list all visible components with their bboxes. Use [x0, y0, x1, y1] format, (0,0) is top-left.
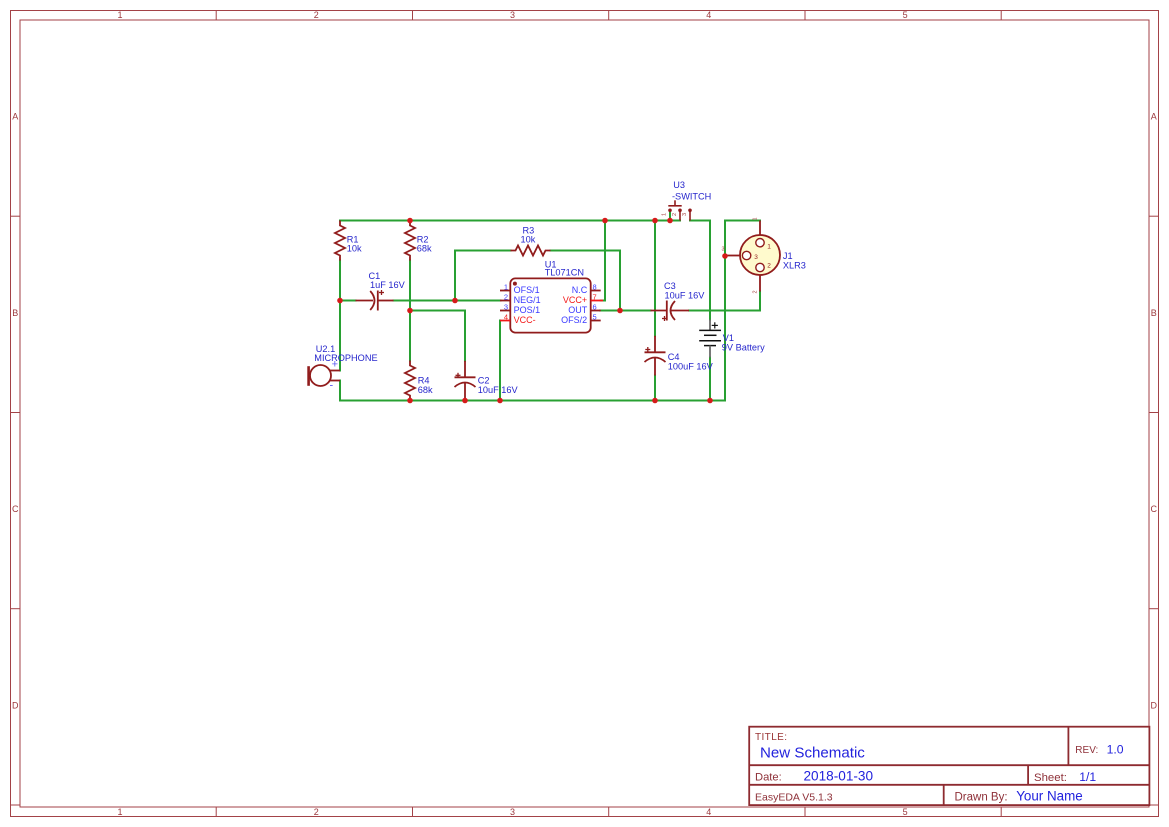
- wire VCC+ stub horizontal: [601, 300, 605, 302]
- svg-text:3: 3: [682, 213, 688, 216]
- J1 hole number 3: [754, 254, 758, 261]
- svg-text:1uF 16V: 1uF 16V: [370, 280, 406, 290]
- svg-text:C: C: [12, 504, 19, 514]
- svg-text:EasyEDA V5.1.3: EasyEDA V5.1.3: [755, 792, 833, 804]
- svg-text:Sheet:: Sheet:: [1034, 772, 1067, 784]
- svg-text:2: 2: [767, 262, 771, 269]
- junction top rail at C4 branch: [652, 218, 658, 224]
- J1 hole number 1: [767, 244, 771, 251]
- svg-text:3: 3: [754, 254, 758, 261]
- label R2: [417, 235, 429, 245]
- svg-text:1: 1: [504, 282, 508, 291]
- wire node A to mic plus: [339, 301, 341, 371]
- U1 pin number 3: [504, 302, 508, 311]
- svg-text:OFS/2: OFS/2: [561, 315, 587, 325]
- label U2.1: [316, 344, 335, 354]
- svg-text:5: 5: [593, 312, 597, 321]
- drawn by value Your Name: [1016, 789, 1082, 804]
- frame row labels A-D left: [12, 112, 19, 711]
- svg-text:10uF 16V: 10uF 16V: [665, 290, 706, 300]
- battery V1: [699, 320, 721, 358]
- wire XLR pin3 net corner top: [725, 220, 760, 222]
- svg-text:B: B: [12, 308, 18, 318]
- label R4 value 68k: [418, 385, 433, 395]
- svg-text:-: -: [330, 380, 334, 392]
- resistor R3: [511, 246, 551, 256]
- label J1: [783, 251, 793, 261]
- label C4 value 100uF 16V: [668, 361, 714, 371]
- U1 pin name VCC-: [514, 315, 536, 325]
- U2.1 pin name +: [332, 359, 338, 371]
- label U1: [545, 260, 557, 270]
- capacitor C2: [455, 361, 476, 401]
- U1 pin number 2: [504, 292, 508, 301]
- junction XLR pin3 net: [722, 253, 728, 259]
- label R1: [347, 235, 359, 245]
- svg-text:TL071CN: TL071CN: [545, 267, 584, 277]
- J1 hole number 2: [767, 262, 771, 269]
- svg-text:7: 7: [593, 292, 597, 301]
- title block field label Drawn By:: [955, 792, 1008, 804]
- title block field label Date:: [755, 772, 782, 784]
- wire R3 right horizontal: [551, 250, 621, 252]
- svg-text:B: B: [1151, 308, 1157, 318]
- wire node B to C2 horizontal: [410, 310, 465, 312]
- wire battery top vertical: [709, 221, 711, 320]
- svg-text:1: 1: [117, 807, 122, 817]
- svg-text:4: 4: [706, 807, 711, 817]
- label C3 value 10uF 16V: [665, 290, 706, 300]
- label C2 value 10uF 16V: [478, 385, 519, 395]
- label C2: [478, 376, 490, 386]
- wire C4 branch top: [654, 221, 656, 336]
- U1 pin name NEG/1: [514, 295, 541, 305]
- svg-text:VCC-: VCC-: [514, 315, 536, 325]
- svg-text:NEG/1: NEG/1: [514, 295, 541, 305]
- rev value 1.0: [1107, 742, 1124, 756]
- junction node A mic/C1: [337, 298, 343, 304]
- label R4: [418, 376, 430, 386]
- svg-text:2: 2: [672, 213, 678, 216]
- svg-text:3: 3: [722, 247, 725, 253]
- wire C3 right to XLR pin2 corner: [689, 310, 760, 312]
- svg-text:10uF 16V: 10uF 16V: [478, 385, 519, 395]
- svg-text:2018-01-30: 2018-01-30: [804, 769, 874, 784]
- wire battery bottom vertical: [709, 358, 711, 401]
- J1 pin number 2: [753, 290, 759, 293]
- svg-text:New Schematic: New Schematic: [760, 745, 865, 762]
- wire R3 right vertical to OUT: [619, 251, 621, 311]
- date value 2018-01-30: [804, 769, 874, 784]
- wire C1 right to pin2: [394, 300, 501, 302]
- wire R1 bottom to node A: [339, 261, 341, 301]
- J1 pin number 3: [722, 247, 725, 253]
- wire C1 left segment: [340, 300, 356, 302]
- svg-text:REV:: REV:: [1075, 745, 1098, 756]
- label V1: [723, 333, 734, 343]
- label C1 value 1uF 16V: [370, 280, 406, 290]
- svg-text:U3: U3: [673, 180, 685, 190]
- svg-text:OFS/1: OFS/1: [514, 285, 540, 295]
- microphone U2.1: [309, 365, 340, 386]
- svg-text:VCC+: VCC+: [563, 295, 587, 305]
- junction node B R2/R4/C2: [407, 308, 413, 314]
- svg-text:10k: 10k: [347, 244, 362, 254]
- svg-text:1.0: 1.0: [1107, 742, 1124, 756]
- capacitor C4: [645, 336, 666, 376]
- junction top rail at VCC+ drop: [602, 218, 608, 224]
- svg-text:D: D: [1151, 700, 1158, 710]
- wire VCC+ drop vertical: [604, 221, 606, 301]
- U1 pin number 1: [504, 282, 508, 291]
- title block: [749, 727, 1149, 805]
- svg-text:OUT: OUT: [568, 305, 588, 315]
- svg-text:5: 5: [903, 807, 908, 817]
- frame column labels 1-5 bottom: [117, 807, 907, 817]
- U1 pin name N.C: [572, 285, 588, 295]
- junction ground rail at battery: [707, 398, 713, 404]
- wire XLR pin3 vertical to ground rail: [724, 221, 726, 401]
- wire R3 left horizontal: [455, 250, 511, 252]
- svg-text:3: 3: [504, 302, 508, 311]
- op-amp U1 TL071CN: [500, 278, 603, 332]
- junction ground rail at R4: [407, 398, 413, 404]
- capacitor C3: [651, 301, 690, 322]
- frame column labels 1-5 top: [117, 10, 907, 20]
- junction R3 left / pin2 net: [452, 298, 458, 304]
- wire R4 top vertical: [409, 311, 411, 361]
- svg-text:4: 4: [706, 10, 711, 20]
- U1 pin name OUT: [568, 305, 588, 315]
- capacitor C1: [356, 290, 394, 311]
- svg-text:Your Name: Your Name: [1016, 789, 1082, 804]
- label C4: [668, 352, 680, 362]
- svg-text:Drawn By:: Drawn By:: [955, 792, 1008, 804]
- wire C2 top vertical: [464, 311, 466, 361]
- wire R2 bottom through C1 net to node B: [409, 261, 411, 311]
- junction ground rail at C2: [462, 398, 468, 404]
- svg-text:3: 3: [510, 10, 515, 20]
- U1 pin number 6: [593, 302, 597, 311]
- svg-text:A: A: [12, 112, 18, 122]
- U1 pin name OFS/2: [561, 315, 587, 325]
- svg-text:TITLE:: TITLE:: [755, 732, 787, 743]
- frame row labels A-D right: [1151, 112, 1158, 711]
- title value New Schematic: [760, 745, 865, 762]
- svg-text:1: 1: [662, 213, 668, 216]
- connector J1 XLR3: [726, 221, 780, 292]
- junction dots: [337, 218, 728, 404]
- svg-text:N.C: N.C: [572, 285, 588, 295]
- label U1 value TL071CN: [545, 267, 584, 277]
- svg-text:5: 5: [903, 10, 908, 20]
- svg-text:1/1: 1/1: [1079, 770, 1096, 784]
- label C3: [664, 281, 676, 291]
- label C1: [369, 271, 381, 281]
- svg-text:C: C: [1151, 504, 1158, 514]
- label J1 value XLR3: [783, 261, 806, 271]
- label U3: [673, 180, 685, 190]
- wire top rail VCC left: [340, 220, 680, 222]
- sheet value 1/1: [1079, 770, 1096, 784]
- junction top rail at switch pin1: [667, 218, 673, 224]
- label U3 value -SWITCH: [672, 192, 711, 202]
- svg-text:2: 2: [753, 290, 759, 293]
- svg-text:-SWITCH: -SWITCH: [672, 192, 711, 202]
- wire switch pin1 overlay: [669, 211, 671, 221]
- U3 pin number 2: [672, 213, 678, 216]
- wire switch pin3 to battery corner: [690, 220, 710, 222]
- svg-text:1: 1: [117, 10, 122, 20]
- label U2.1 value MICROPHONE: [314, 353, 377, 363]
- U1 pin name POS/1: [514, 305, 541, 315]
- U1 pin number 8: [593, 282, 597, 291]
- J1 pin number 1: [753, 217, 759, 220]
- switch U3: [668, 200, 690, 220]
- junction OUT net: [617, 308, 623, 314]
- svg-text:8: 8: [593, 282, 597, 291]
- label R3: [523, 226, 535, 236]
- svg-text:2: 2: [314, 807, 319, 817]
- svg-text:POS/1: POS/1: [514, 305, 541, 315]
- svg-text:6: 6: [593, 302, 597, 311]
- label R1 value 10k: [347, 244, 362, 254]
- label R2 value 68k: [417, 244, 432, 254]
- svg-text:A: A: [1151, 112, 1157, 122]
- U1 pin name VCC+: [563, 295, 587, 305]
- U2.1 pin name -: [330, 380, 334, 392]
- wire OUT pin6 to C3: [600, 310, 651, 312]
- svg-text:10k: 10k: [521, 235, 536, 245]
- resistor R4: [405, 361, 415, 401]
- svg-text:2: 2: [314, 10, 319, 20]
- label V1 value 9V Battery: [722, 342, 765, 352]
- title block field label Sheet:: [1034, 772, 1067, 784]
- resistor R1: [335, 221, 345, 261]
- U3 pin number 1: [662, 213, 668, 216]
- junction ground rail at VCC-: [497, 398, 503, 404]
- title block text EasyEDA V5.1.3: [755, 792, 833, 804]
- wire C4 branch bottom: [654, 376, 656, 401]
- junction ground rail at C4: [652, 398, 658, 404]
- label R3 value 10k: [521, 235, 536, 245]
- wire bottom ground rail: [340, 400, 725, 402]
- svg-text:4: 4: [504, 312, 508, 321]
- svg-text:3: 3: [510, 807, 515, 817]
- WIRES: [340, 211, 760, 401]
- U1 pin number 7: [593, 292, 597, 301]
- wire VCC- pin4 vertical: [499, 321, 501, 401]
- U1 pin name OFS/1: [514, 285, 540, 295]
- U1 pin number 4: [504, 312, 508, 321]
- svg-text:9V Battery: 9V Battery: [722, 342, 765, 352]
- wire XLR pin2 vertical: [759, 292, 761, 311]
- title block field label REV:: [1075, 745, 1098, 756]
- U1 pin number 5: [593, 312, 597, 321]
- svg-text:Date:: Date:: [755, 772, 782, 784]
- svg-text:68k: 68k: [417, 244, 432, 254]
- svg-text:MICROPHONE: MICROPHONE: [314, 353, 377, 363]
- title block field label TITLE:: [755, 732, 787, 743]
- junction top rail at R2: [407, 218, 413, 224]
- U3 pin number 3: [682, 213, 688, 216]
- svg-text:100uF 16V: 100uF 16V: [668, 361, 714, 371]
- svg-text:1: 1: [753, 217, 759, 220]
- svg-text:XLR3: XLR3: [783, 261, 806, 271]
- svg-text:D: D: [12, 700, 19, 710]
- svg-text:1: 1: [767, 244, 771, 251]
- resistor R2: [405, 221, 415, 261]
- wire R3 left vertical: [454, 251, 456, 301]
- svg-text:68k: 68k: [418, 385, 433, 395]
- svg-text:2: 2: [504, 292, 508, 301]
- wire mic minus down: [339, 381, 341, 401]
